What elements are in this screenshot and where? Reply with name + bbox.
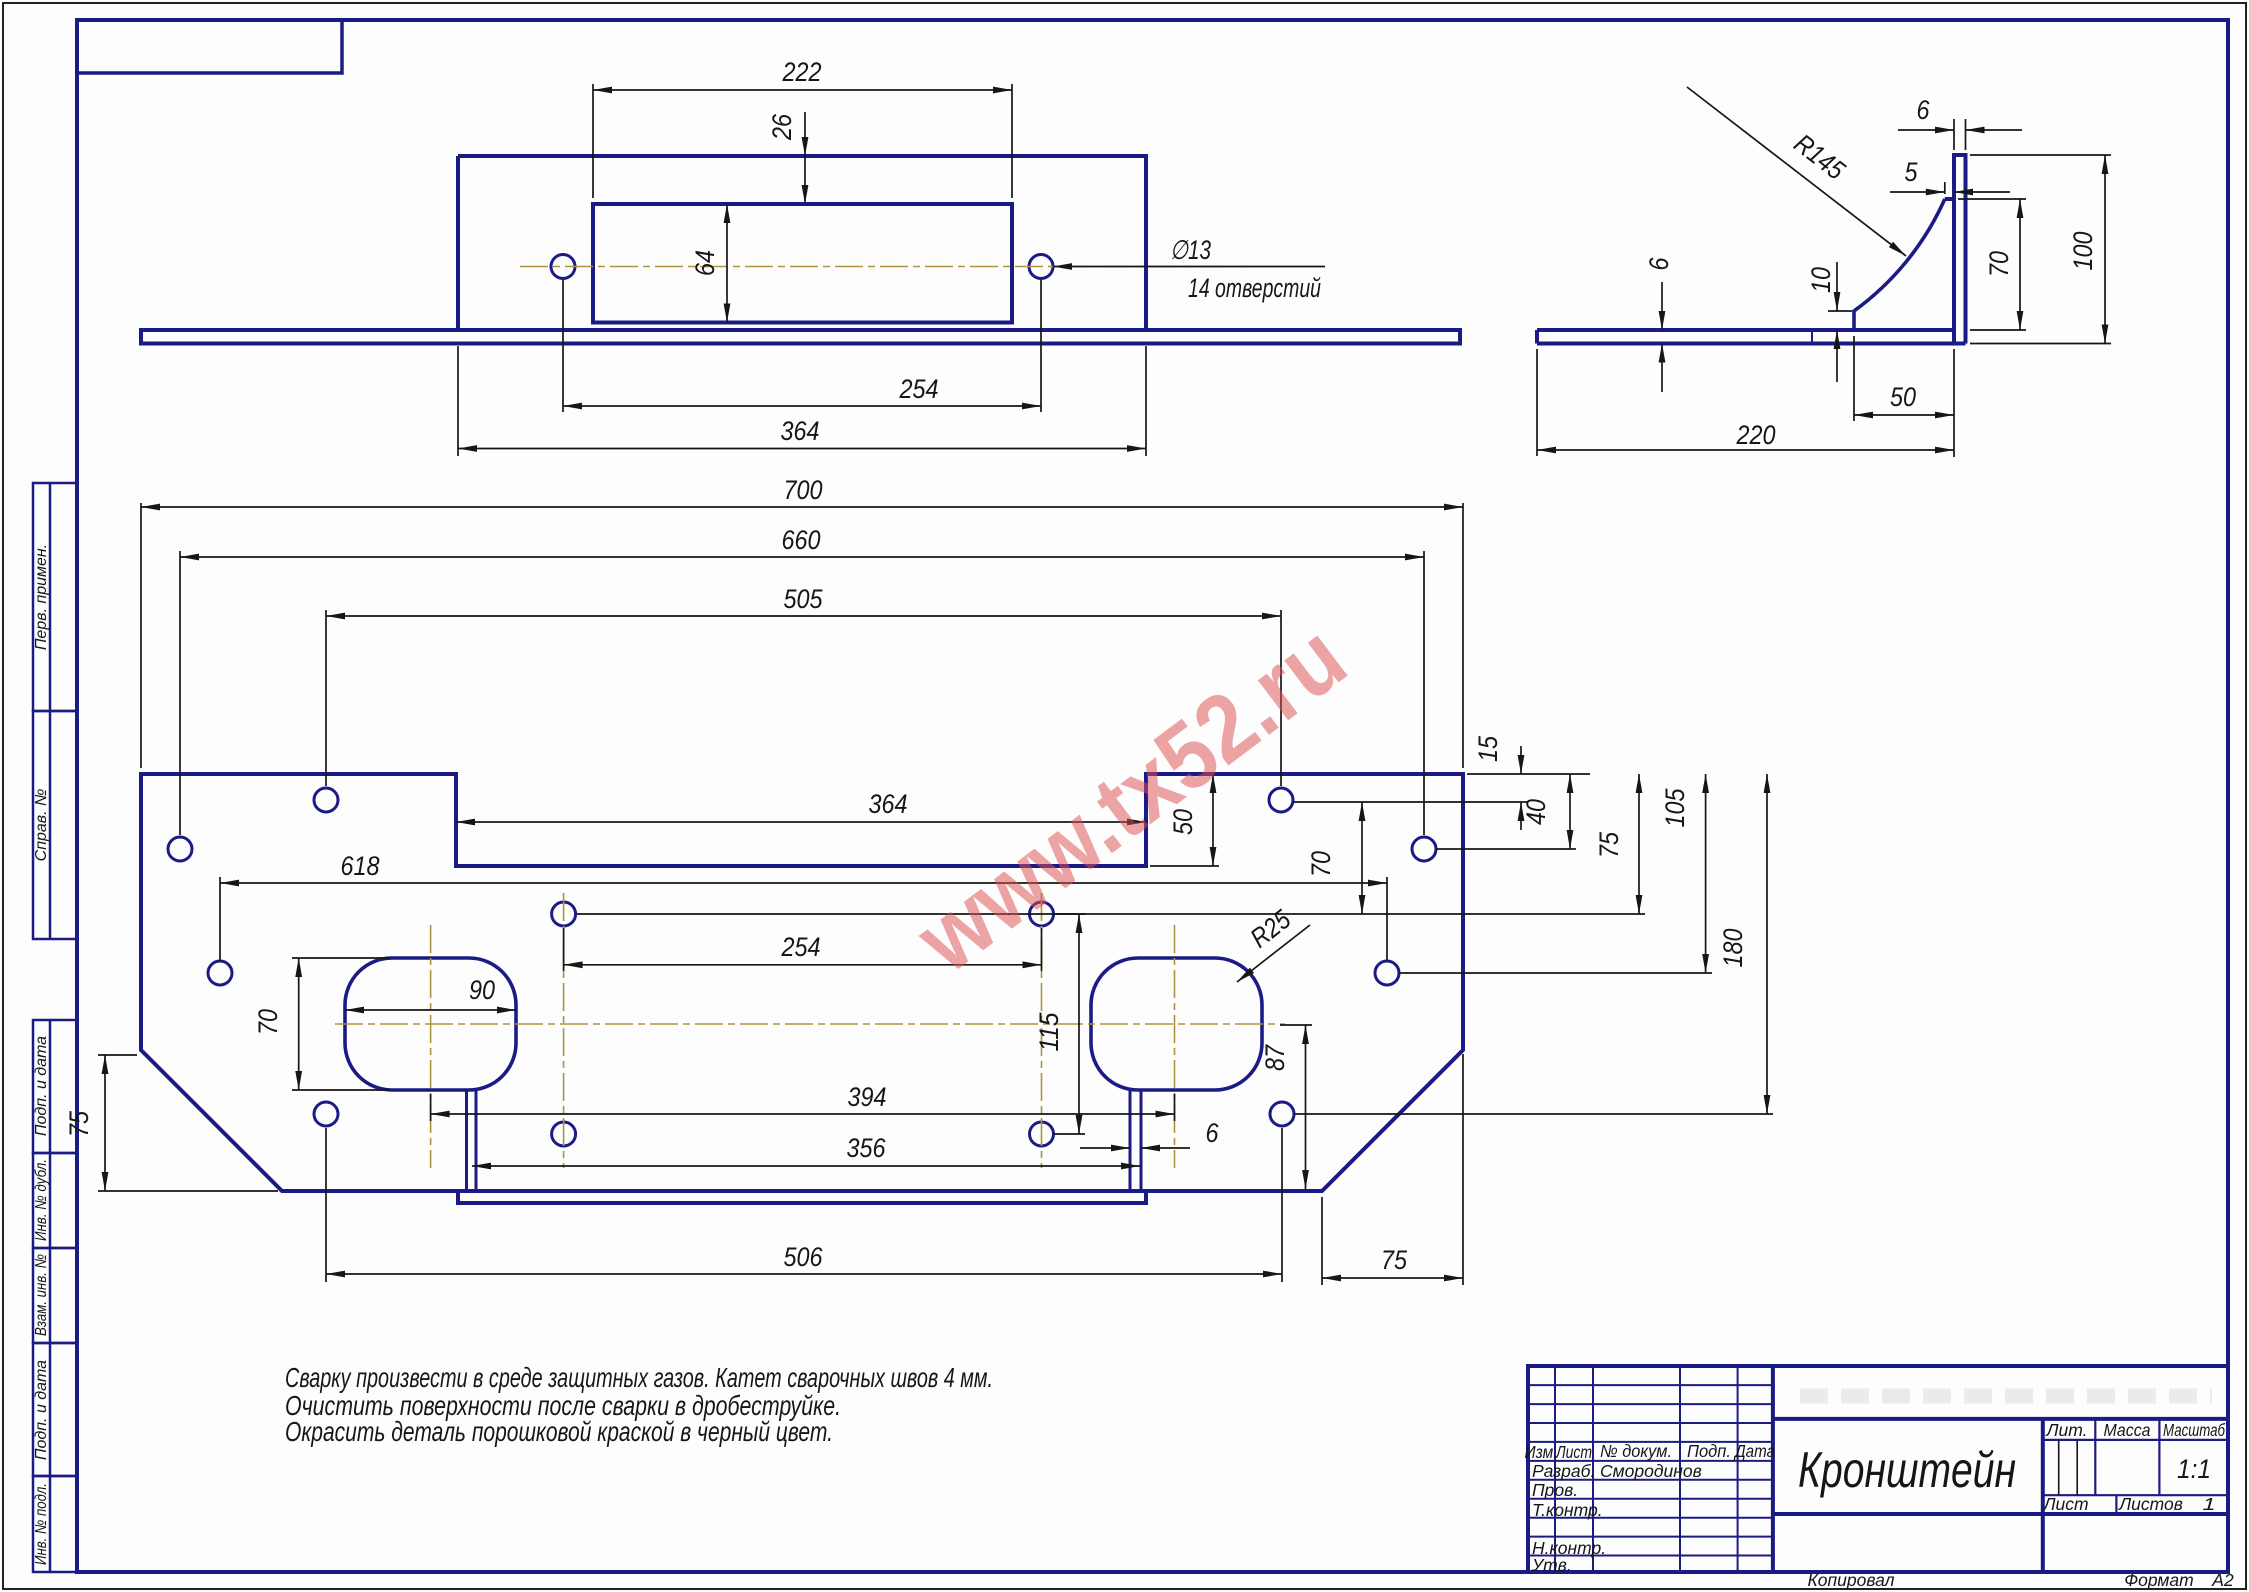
dim 40 line xyxy=(1569,774,1571,849)
svg-text:50: 50 xyxy=(1890,382,1916,412)
dim 6 plate arrows xyxy=(1898,129,1954,131)
dim 506 extension lines xyxy=(326,1128,1282,1282)
title block row Лист-Листов bottom xyxy=(2043,1494,2228,1496)
dim 70 left hole extension lines xyxy=(292,958,390,1090)
svg-text:75: 75 xyxy=(1594,831,1624,858)
centerline vertical D1-E1 xyxy=(563,893,565,1168)
leader R145 xyxy=(1687,87,1906,256)
dim 15 arrows xyxy=(1520,746,1522,774)
side view flange xyxy=(1537,330,1966,344)
svg-text:75: 75 xyxy=(1381,1245,1408,1275)
dim 6 plate extension lines xyxy=(1954,119,1966,150)
faint erased band in title block xyxy=(1800,1389,2212,1404)
svg-text:115: 115 xyxy=(1034,1012,1064,1052)
svg-text:Перв. примен.: Перв. примен. xyxy=(33,544,50,650)
svg-text:Подп. и дата: Подп. и дата xyxy=(33,1360,50,1460)
dim 70 side extension lines xyxy=(1958,199,2026,330)
title block vertical Лист-Листов xyxy=(2115,1495,2117,1514)
dim 50 recess extension line xyxy=(1150,865,1219,867)
svg-text:64: 64 xyxy=(690,250,720,276)
circle hole B2 xyxy=(1412,837,1436,861)
dim 50 recess line xyxy=(1212,774,1214,866)
svg-text:70: 70 xyxy=(253,1009,283,1035)
svg-text:87: 87 xyxy=(1260,1044,1290,1071)
dim 100 extension lines xyxy=(1970,155,2111,344)
dim 10 extension line xyxy=(1828,310,1852,312)
svg-text:700: 700 xyxy=(784,475,823,505)
title block row lines left section xyxy=(1528,1385,1773,1555)
svg-text:Масса: Масса xyxy=(2104,1420,2151,1440)
dim 75 right extension line xyxy=(1053,913,1645,915)
svg-text:100: 100 xyxy=(2068,232,2098,271)
dim 10 arrows xyxy=(1836,262,1838,311)
svg-text:6: 6 xyxy=(1206,1118,1220,1148)
leader R25 xyxy=(1237,925,1310,982)
svg-text:6: 6 xyxy=(1917,95,1931,125)
svg-text:Лист: Лист xyxy=(1555,1442,1592,1462)
dim 660 extension lines xyxy=(180,551,1424,835)
dim 90 line xyxy=(345,1009,516,1011)
circle hole E1 xyxy=(552,1122,576,1146)
dim 70 left hole line xyxy=(298,958,300,1090)
svg-text:Копировал: Копировал xyxy=(1807,1570,1894,1590)
dim 50 line xyxy=(1854,414,1954,416)
svg-text:220: 220 xyxy=(1736,420,1776,450)
svg-text:90: 90 xyxy=(469,975,495,1005)
dim 254 main extension lines xyxy=(564,928,1042,971)
title block vertical Лист xyxy=(1592,1366,1594,1572)
svg-text:26: 26 xyxy=(767,113,797,141)
side view vertical plate xyxy=(1954,155,1966,344)
svg-text:Лист: Лист xyxy=(2042,1494,2088,1514)
main view outline xyxy=(141,774,1463,1191)
svg-text:394: 394 xyxy=(848,1082,887,1112)
left margin box Подп. и дата (lower) xyxy=(33,1343,77,1476)
dim 364 top extension lines xyxy=(458,346,1146,456)
dim 15 extension lines xyxy=(1293,774,1590,802)
title block name cell top xyxy=(1773,1417,2228,1421)
svg-text:10: 10 xyxy=(1806,267,1836,293)
svg-text:∅13: ∅13 xyxy=(1170,235,1211,265)
dim 115 extension lines xyxy=(577,914,1085,1134)
svg-text:356: 356 xyxy=(847,1133,887,1163)
side view gusset top step xyxy=(1945,197,1954,201)
left margin box Инв. № дубл. xyxy=(33,1153,77,1248)
title block Лит subcell lines xyxy=(2059,1440,2078,1495)
svg-text:№ докум.: № докум. xyxy=(1600,1441,1672,1461)
svg-text:6: 6 xyxy=(1644,257,1674,271)
svg-text:254: 254 xyxy=(781,932,821,962)
dim 26 arrows xyxy=(802,137,809,204)
svg-text:105: 105 xyxy=(1660,788,1690,828)
title block header row bottom right xyxy=(2043,1439,2228,1441)
top view flange strip xyxy=(141,330,1460,344)
svg-text:5: 5 xyxy=(1905,157,1919,187)
circle hole D1 xyxy=(552,902,576,926)
left margin box Взам. инв. № xyxy=(33,1248,77,1343)
circle hole A1 xyxy=(314,788,338,812)
left margin box Подп. и дата (upper) xyxy=(33,1020,77,1153)
main view right rounded hole xyxy=(1091,958,1262,1090)
svg-text:Смородинов: Смородинов xyxy=(1600,1461,1702,1481)
svg-text:660: 660 xyxy=(782,525,821,555)
left margin box Перв. примен. xyxy=(33,483,77,711)
svg-text:Листов: Листов xyxy=(2118,1494,2183,1514)
svg-text:Дата: Дата xyxy=(1733,1441,1775,1461)
circle hole F1 xyxy=(314,1102,338,1126)
svg-text:180: 180 xyxy=(1718,929,1748,968)
top view hole left xyxy=(551,255,575,279)
svg-text:70: 70 xyxy=(1984,251,2014,277)
dim 64 line xyxy=(726,204,728,323)
dim 75 left extension lines xyxy=(98,1055,278,1191)
svg-text:Подп.: Подп. xyxy=(1687,1441,1731,1461)
svg-text:222: 222 xyxy=(782,57,822,87)
svg-text:254: 254 xyxy=(899,374,939,404)
dim 254 main line xyxy=(564,964,1042,966)
dim 5 arrows xyxy=(1890,191,1945,193)
svg-text:А2: А2 xyxy=(2211,1570,2234,1590)
dim 254 top extension lines xyxy=(563,280,1041,412)
centerline vertical D2-E2 xyxy=(1041,893,1043,1168)
top-left corner box (графа 26) xyxy=(77,20,342,73)
centerline vertical right hole xyxy=(1174,925,1176,1168)
title block vertical № докум xyxy=(1679,1366,1681,1572)
dim 700 line xyxy=(141,506,1463,508)
circle hole C2 xyxy=(1375,961,1399,985)
dim 220 extension line xyxy=(1536,349,1538,456)
dim 222 extension lines xyxy=(593,84,1012,198)
dim 222 line xyxy=(593,89,1012,91)
svg-text:Т.контр.: Т.контр. xyxy=(1532,1500,1603,1520)
dim 5 extension line xyxy=(1944,182,1946,194)
svg-text:Лит.: Лит. xyxy=(2046,1420,2088,1440)
top view hole right xyxy=(1029,255,1053,279)
circle hole A2 xyxy=(1269,788,1293,812)
dim 105 line xyxy=(1705,774,1707,973)
dim 506 line xyxy=(326,1273,1282,1275)
dim 70 upper right line xyxy=(1361,802,1363,914)
left weld seam lines xyxy=(467,1090,477,1191)
svg-text:14 отверстий: 14 отверстий xyxy=(1188,273,1321,303)
svg-text:40: 40 xyxy=(1521,799,1551,825)
svg-text:Справ. №: Справ. № xyxy=(33,789,50,862)
dim 356 line xyxy=(472,1165,1140,1167)
top view slot rectangle xyxy=(593,204,1012,323)
svg-text:618: 618 xyxy=(341,851,380,881)
dim 6 seam arrows xyxy=(1080,1147,1130,1149)
dim 70 side line xyxy=(2019,199,2021,330)
dim 50 extension lines xyxy=(1854,336,1954,457)
circle hole D2 xyxy=(1030,902,1054,926)
title block vertical Лит-Масса xyxy=(2094,1419,2096,1495)
dim 87 extension line xyxy=(1280,1024,1312,1026)
svg-text:506: 506 xyxy=(784,1242,824,1272)
title block vertical Масса-Масштаб xyxy=(2158,1419,2160,1495)
dim 254 top line xyxy=(563,405,1041,407)
dim 87 line xyxy=(1305,1025,1307,1189)
dim 75 bottom right extension lines xyxy=(1322,1054,1463,1285)
dim 660 line xyxy=(180,556,1424,558)
dim 394 extension lines xyxy=(431,1094,1175,1121)
svg-text:Изм.: Изм. xyxy=(1525,1442,1558,1462)
circle hole E2 xyxy=(1030,1122,1054,1146)
dim 700 extension lines xyxy=(141,503,1463,768)
svg-text:Разраб.: Разраб. xyxy=(1532,1461,1595,1481)
dim 6 flange arrows xyxy=(1661,282,1663,330)
dim 220 line xyxy=(1537,449,1954,451)
top view body outline xyxy=(458,156,1146,330)
right weld seam lines xyxy=(1130,1090,1141,1191)
dim 505 line xyxy=(326,615,1281,617)
dim 618 extension lines xyxy=(220,877,1387,961)
leader d13 line xyxy=(1053,266,1325,268)
svg-text:Утв.: Утв. xyxy=(1531,1555,1572,1575)
svg-text:1: 1 xyxy=(2203,1494,2216,1514)
main view bottom lip xyxy=(458,1191,1146,1203)
dim 75 right line xyxy=(1638,774,1640,914)
svg-text:75: 75 xyxy=(64,1110,94,1137)
svg-text:Подп. и дата: Подп. и дата xyxy=(33,1036,50,1136)
centerline horizontal through holes xyxy=(335,1023,1285,1025)
svg-text:Инв. № дубл.: Инв. № дубл. xyxy=(33,1159,50,1241)
title block vertical Изм xyxy=(1554,1366,1556,1572)
svg-text:Масштаб: Масштаб xyxy=(2163,1420,2226,1440)
circle hole B1 xyxy=(168,837,192,861)
dim 40 extension line xyxy=(1436,848,1576,850)
svg-text:Инв. № подл.: Инв. № подл. xyxy=(33,1483,50,1565)
svg-text:Сварку произвести в среде защи: Сварку произвести в среде защитных газов… xyxy=(285,1362,993,1393)
svg-text:1:1: 1:1 xyxy=(2177,1454,2211,1484)
centerline vertical left hole xyxy=(430,925,432,1168)
top view centerline xyxy=(520,266,1252,268)
dim 180 extension line xyxy=(1294,1113,1773,1115)
title block vertical right of name xyxy=(2041,1419,2045,1572)
title block vertical Подп xyxy=(1737,1366,1739,1572)
svg-text:70: 70 xyxy=(1306,851,1336,877)
circle hole F2 xyxy=(1270,1102,1294,1126)
dim 505 extension lines xyxy=(326,610,1281,786)
svg-text:Пров.: Пров. xyxy=(1532,1480,1578,1500)
dim 75 bottom right line xyxy=(1322,1277,1463,1279)
dim 364 top line xyxy=(458,448,1146,450)
svg-text:364: 364 xyxy=(781,416,820,446)
dim 26 line xyxy=(804,112,806,204)
dim 180 line xyxy=(1766,774,1768,1114)
dim 75 left line xyxy=(104,1055,106,1191)
title block outer xyxy=(1528,1366,2228,1572)
dim 100 line xyxy=(2104,155,2106,344)
title block name cell bottom xyxy=(1773,1512,2228,1516)
svg-text:364: 364 xyxy=(869,789,908,819)
dim 394 line xyxy=(431,1113,1175,1115)
left margin box Инв. № подл. xyxy=(33,1476,77,1572)
dim 364 main line xyxy=(456,821,1146,823)
dim 105 extension line xyxy=(1399,972,1712,974)
title block vertical main divider xyxy=(1771,1366,1775,1572)
svg-text:505: 505 xyxy=(784,584,824,614)
dim 618 line xyxy=(220,882,1387,884)
svg-text:Формат: Формат xyxy=(2124,1570,2194,1590)
svg-text:15: 15 xyxy=(1473,735,1503,762)
main view left rounded hole xyxy=(345,958,516,1090)
side view gusset curve R145 xyxy=(1854,199,1945,330)
svg-text:Окрасить деталь порошковой кра: Окрасить деталь порошковой краской в чер… xyxy=(285,1416,833,1447)
dim 115 line xyxy=(1078,914,1080,1134)
left margin box Справ. № xyxy=(33,711,77,939)
svg-text:Кронштейн: Кронштейн xyxy=(1798,1442,2016,1498)
circle hole C1 xyxy=(208,961,232,985)
svg-text:Взам. инв. №: Взам. инв. № xyxy=(33,1254,50,1336)
side view weld tick xyxy=(1811,331,1813,344)
